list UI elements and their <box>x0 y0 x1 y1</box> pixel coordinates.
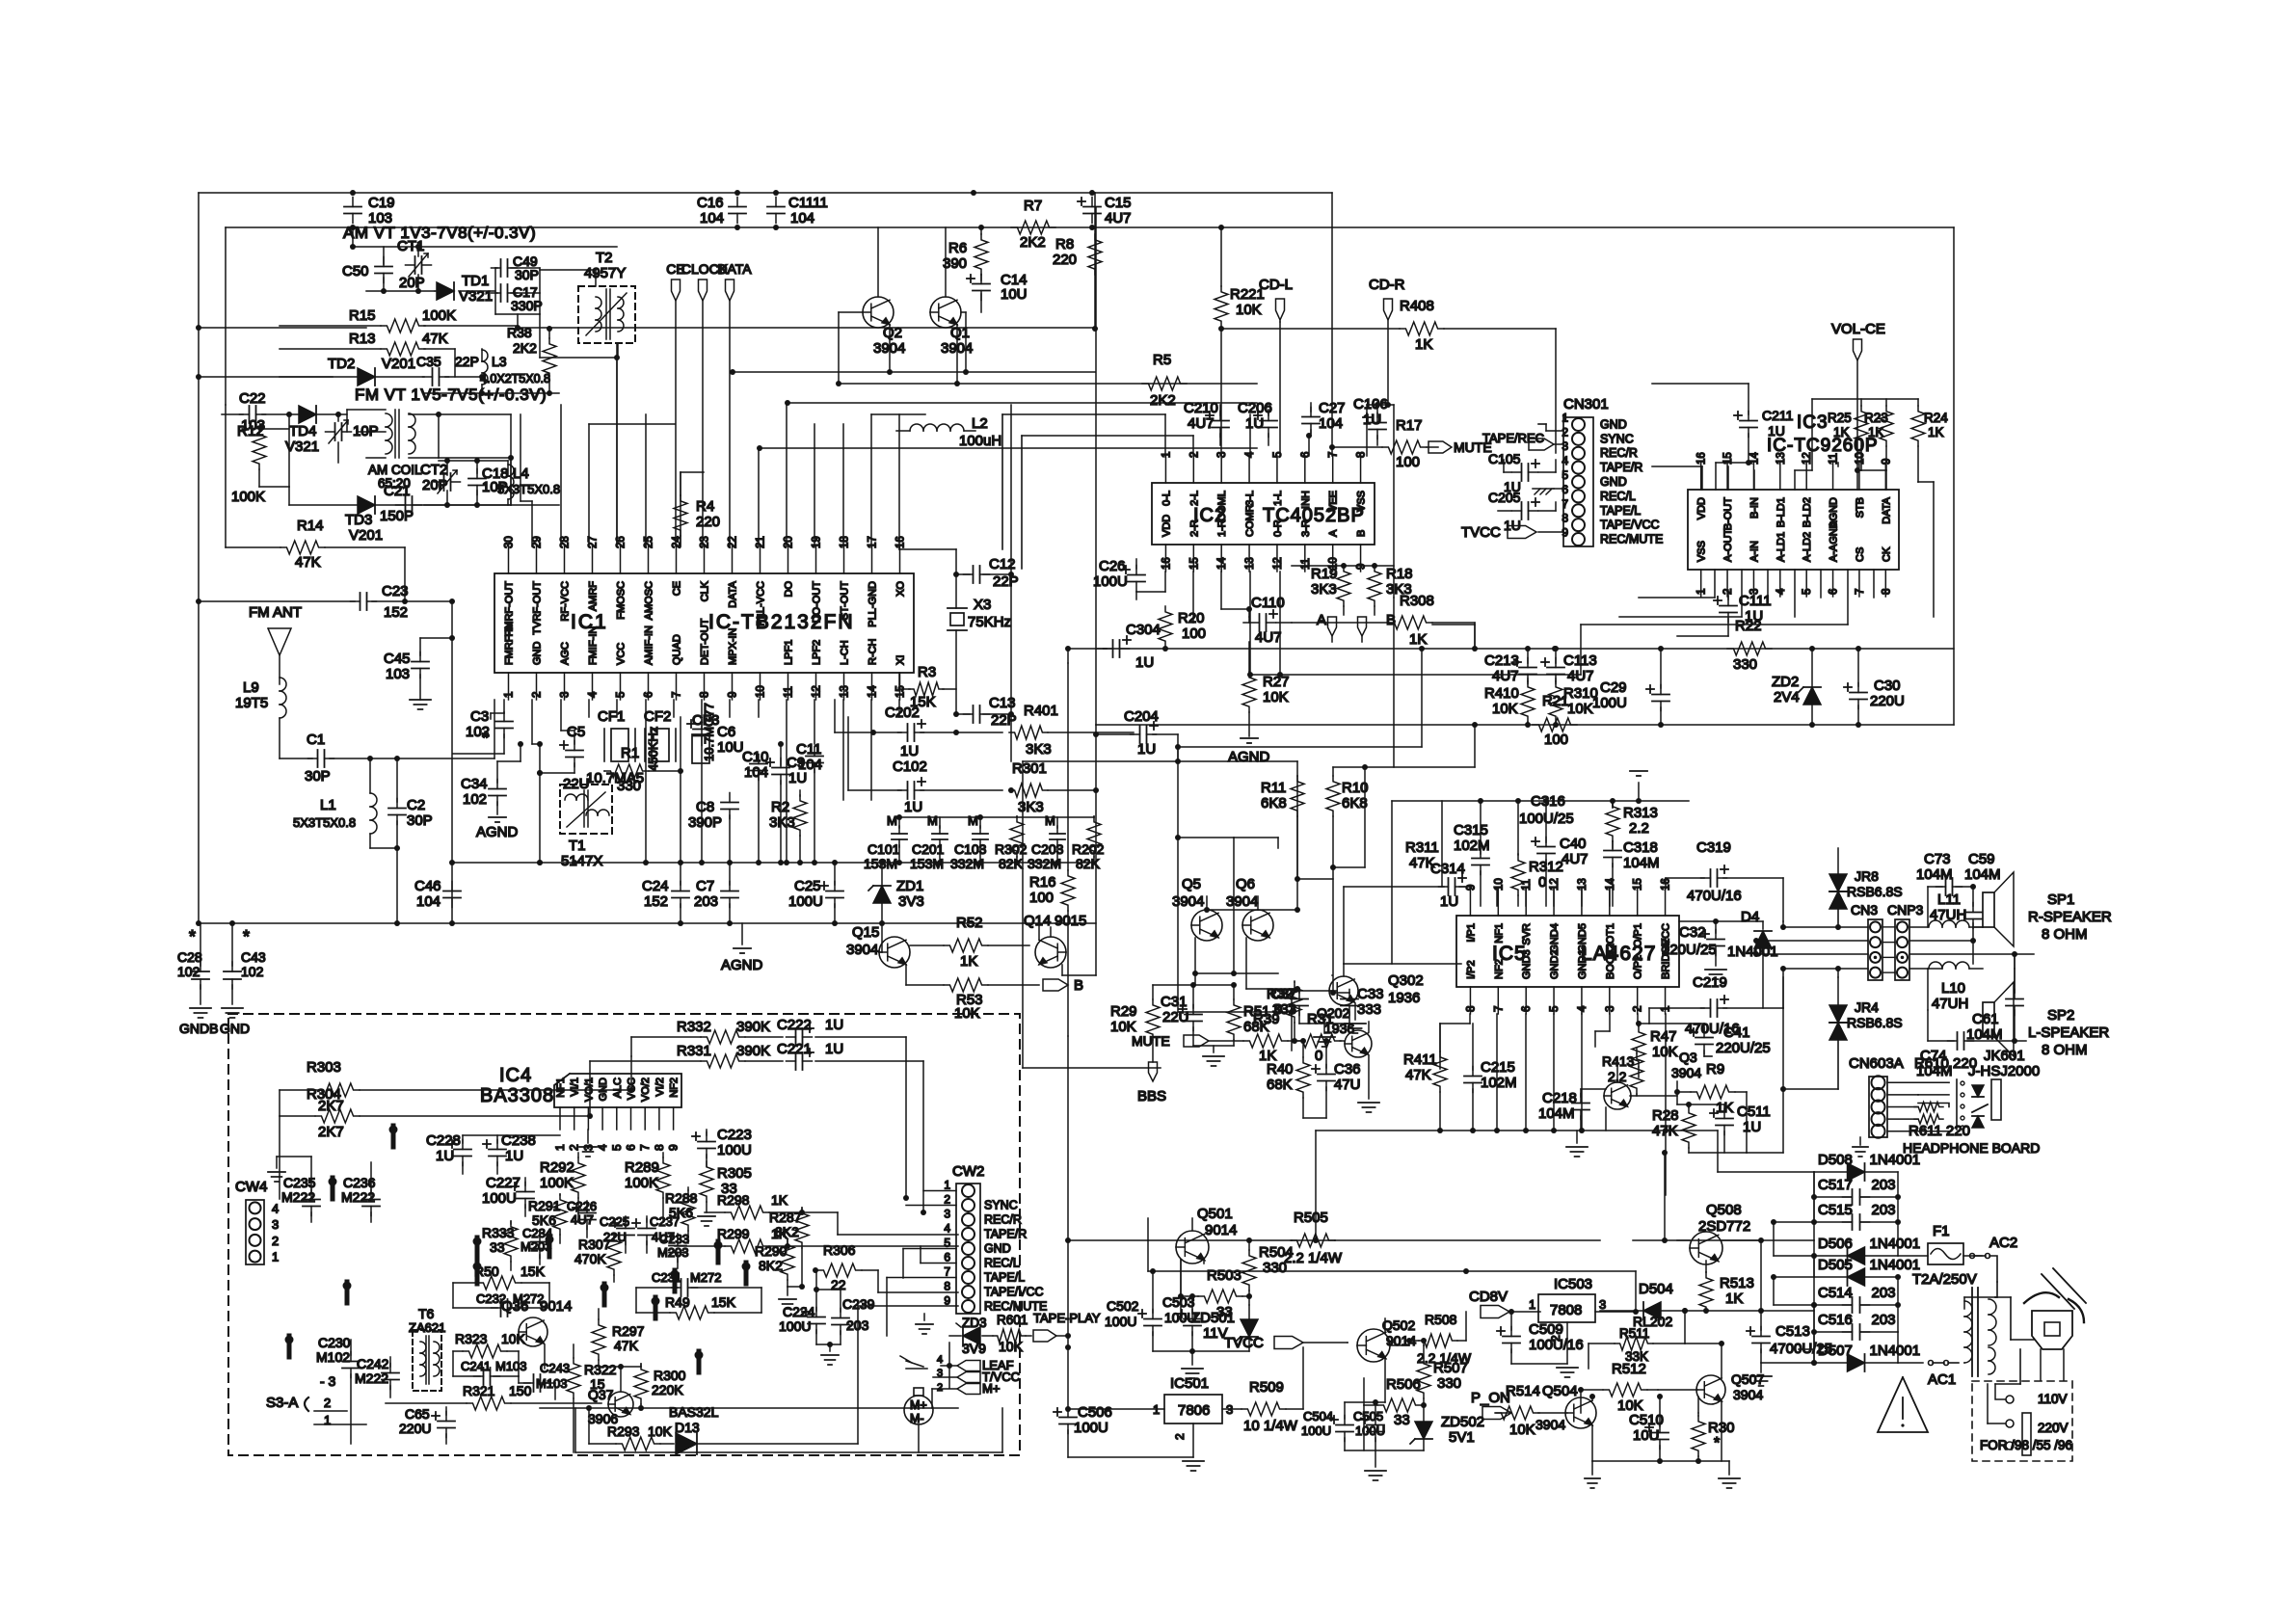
capacitor C6 <box>687 720 744 757</box>
svg-text:LPF1: LPF1 <box>784 640 795 665</box>
svg-text:5: 5 <box>616 692 627 698</box>
wire <box>452 814 1096 865</box>
svg-text:3904: 3904 <box>1733 1387 1763 1402</box>
svg-text:R6: R6 <box>948 240 967 256</box>
svg-text:- 3: - 3 <box>320 1373 336 1389</box>
node CN301 pin 6 REC/L <box>1562 483 1636 503</box>
switch contact <box>601 1284 609 1306</box>
svg-text:BAS32L: BAS32L <box>669 1404 719 1420</box>
node B <box>1358 612 1397 642</box>
svg-text:R29: R29 <box>1110 1003 1137 1020</box>
resistor R322 <box>567 1344 617 1452</box>
svg-text:C22: C22 <box>239 390 266 407</box>
svg-text:CW2: CW2 <box>952 1163 984 1180</box>
svg-text:1U: 1U <box>825 1041 843 1057</box>
svg-text:9: 9 <box>1356 564 1368 570</box>
svg-text:*: * <box>482 729 489 748</box>
svg-text:104: 104 <box>790 210 814 226</box>
op-amp U503 IC503 7808 <box>1511 1276 1639 1377</box>
svg-text:L9: L9 <box>243 679 259 696</box>
svg-text:5: 5 <box>1549 1006 1561 1012</box>
switch contact <box>652 1297 660 1319</box>
svg-text:7: 7 <box>944 1265 950 1279</box>
resistor R8 <box>1053 234 1102 275</box>
svg-text:B: B <box>1074 977 1083 994</box>
svg-text:R20: R20 <box>1178 610 1205 626</box>
ground <box>1299 1024 1349 1047</box>
svg-text:3K3: 3K3 <box>769 814 795 831</box>
svg-text:M: M <box>1045 813 1055 828</box>
svg-text:1N4001: 1N4001 <box>1727 944 1778 960</box>
node T/VCC <box>933 1354 1020 1394</box>
svg-text:Q5: Q5 <box>1182 876 1201 892</box>
svg-text:REC/R: REC/R <box>984 1213 1022 1227</box>
transistor Q5 <box>1172 876 1258 973</box>
svg-text:SP2: SP2 <box>2047 1007 2074 1024</box>
svg-text:1: 1 <box>1161 452 1172 458</box>
speaker SP1 <box>1973 872 2112 964</box>
svg-text:R9: R9 <box>1706 1061 1724 1078</box>
node CD-L <box>1259 277 1293 322</box>
capacitor C24 <box>642 863 689 926</box>
svg-text:1: 1 <box>1562 411 1568 424</box>
wire <box>359 412 514 505</box>
svg-text:14: 14 <box>1216 557 1228 570</box>
svg-text:10U: 10U <box>1633 1427 1660 1444</box>
resistor R27 <box>1242 642 1290 736</box>
svg-text:C515: C515 <box>1818 1202 1853 1218</box>
svg-text:21: 21 <box>756 536 767 548</box>
svg-text:NF1: NF1 <box>1493 923 1505 944</box>
resistor R408 <box>1221 298 1556 453</box>
connector CNP3 <box>1887 902 1924 980</box>
svg-text:3904: 3904 <box>846 942 878 958</box>
svg-text:C242: C242 <box>357 1356 389 1371</box>
svg-text:B: B <box>1356 530 1368 537</box>
svg-text:1U: 1U <box>1245 415 1264 432</box>
capacitor C211 <box>1652 384 1794 463</box>
resistor R503 <box>1178 1260 1252 1320</box>
label GND <box>220 1021 250 1036</box>
node TAPE/REC <box>1482 431 1554 450</box>
svg-text:11: 11 <box>1300 558 1312 570</box>
svg-text:R313: R313 <box>1623 805 1658 821</box>
chip cap C101 <box>864 813 907 871</box>
svg-text:Q6: Q6 <box>1236 876 1255 892</box>
wire <box>1538 424 1563 444</box>
svg-text:RF-VCC: RF-VCC <box>560 581 572 622</box>
resistor R13 <box>280 331 455 377</box>
svg-text:AC2: AC2 <box>1989 1235 2017 1251</box>
svg-text:R24: R24 <box>1924 411 1948 425</box>
capacitor C19 <box>344 195 395 226</box>
resistor R506 <box>1364 1376 1427 1450</box>
svg-text:1U: 1U <box>505 1148 523 1164</box>
svg-text:R509: R509 <box>1249 1379 1284 1396</box>
wire <box>1718 1131 1814 1172</box>
svg-text:150P: 150P <box>380 508 414 524</box>
svg-text:C202: C202 <box>885 705 920 721</box>
capacitor C515 <box>1814 1202 1898 1230</box>
svg-text:SP1: SP1 <box>2047 891 2074 908</box>
svg-text:5: 5 <box>1562 468 1568 482</box>
svg-text:F1: F1 <box>1933 1223 1950 1239</box>
svg-text:R401: R401 <box>1024 703 1058 719</box>
svg-text:CD8V: CD8V <box>1469 1289 1508 1305</box>
node CW2 pin 5 GND <box>944 1237 1010 1256</box>
svg-text:8: 8 <box>1881 589 1892 595</box>
svg-text:LA4627: LA4627 <box>1581 943 1656 965</box>
svg-text:330: 330 <box>617 778 641 794</box>
svg-text:330P: 330P <box>511 298 543 313</box>
resistor R53 <box>906 978 1039 1022</box>
capacitor C502 <box>1105 1268 1161 1351</box>
svg-text:C19: C19 <box>368 195 395 211</box>
svg-text:TAPE/L: TAPE/L <box>1600 504 1641 518</box>
transformer AM COIL <box>347 410 439 491</box>
capacitor C9 <box>766 741 807 865</box>
svg-text:R14: R14 <box>297 518 324 534</box>
svg-text:D506: D506 <box>1818 1236 1853 1252</box>
svg-text:CNP3: CNP3 <box>1887 902 1924 918</box>
selector FOR box <box>1972 1381 2072 1461</box>
svg-text:GND4: GND4 <box>1549 923 1561 953</box>
capacitor C222 <box>631 1017 909 1201</box>
node CW2 pin 9 REC/MUTE <box>944 1294 1047 1314</box>
svg-text:150: 150 <box>509 1383 532 1398</box>
capacitor C513 <box>1747 1311 1832 1366</box>
svg-text:C215: C215 <box>1481 1059 1515 1076</box>
svg-text:22P: 22P <box>993 573 1019 590</box>
svg-text:C29: C29 <box>1600 679 1627 696</box>
capacitor C23 <box>199 583 455 621</box>
svg-text:16: 16 <box>1661 878 1672 891</box>
svg-text:R1: R1 <box>621 745 639 761</box>
capacitor C33 <box>1330 867 1384 1024</box>
connector CW4 <box>235 1179 267 1264</box>
svg-text:C1: C1 <box>307 732 325 748</box>
capacitor C503 <box>1153 1293 1201 1354</box>
svg-text:1N4001: 1N4001 <box>1870 1343 1921 1359</box>
svg-text:2K2: 2K2 <box>1150 392 1176 409</box>
node AC1 <box>1928 1361 1959 1389</box>
svg-text:10K: 10K <box>648 1423 673 1439</box>
svg-text:220U: 220U <box>399 1421 431 1436</box>
svg-text:1K: 1K <box>771 1192 788 1208</box>
svg-text:2V4: 2V4 <box>1774 689 1800 705</box>
svg-text:TAPE/VCC: TAPE/VCC <box>984 1286 1044 1299</box>
ground near CN301 <box>1533 489 1563 494</box>
svg-text:33: 33 <box>1394 1412 1410 1428</box>
capacitor C239 <box>816 1290 875 1365</box>
svg-text:220: 220 <box>1053 252 1077 268</box>
capacitor C59 <box>1964 851 2001 941</box>
resistor R287 <box>769 1208 809 1290</box>
transformer T1 <box>560 785 612 869</box>
transistor Q37 <box>540 1367 958 1444</box>
svg-text:3904: 3904 <box>1172 893 1204 910</box>
svg-text:*: * <box>189 927 196 946</box>
svg-text:12: 12 <box>1272 557 1284 570</box>
svg-text:GND: GND <box>532 642 544 666</box>
resistor R32 <box>1267 981 1301 1044</box>
svg-text:V321: V321 <box>459 288 493 305</box>
transformer T mains <box>1964 1282 2034 1384</box>
svg-text:C514: C514 <box>1818 1285 1853 1301</box>
fuse F1 <box>1898 1223 1977 1288</box>
svg-text:REC/MUTE: REC/MUTE <box>984 1300 1047 1314</box>
svg-text:6: 6 <box>1521 1006 1533 1012</box>
svg-text:R312: R312 <box>1529 859 1563 875</box>
svg-text:R289: R289 <box>625 1159 659 1176</box>
svg-text:C46: C46 <box>414 878 441 894</box>
connector CN301 <box>1563 396 1609 546</box>
svg-text:R299: R299 <box>717 1226 750 1241</box>
svg-text:4: 4 <box>588 691 600 698</box>
svg-text:82K: 82K <box>999 856 1024 871</box>
resistor R29 <box>1110 985 1160 1062</box>
svg-text:6: 6 <box>944 1251 950 1264</box>
svg-text:Q508: Q508 <box>1706 1202 1742 1218</box>
svg-text:R17: R17 <box>1396 417 1423 434</box>
svg-text:RSB6.8S: RSB6.8S <box>1847 884 1903 899</box>
svg-text:R22: R22 <box>1735 618 1762 634</box>
transistor Q36 <box>501 1298 572 1369</box>
svg-text:C1111: C1111 <box>788 195 828 211</box>
svg-text:I/P2: I/P2 <box>1465 960 1477 979</box>
capacitor C7 <box>694 863 738 926</box>
svg-text:M102: M102 <box>316 1349 350 1365</box>
svg-text:104M: 104M <box>1964 866 2001 883</box>
svg-text:C33: C33 <box>1357 986 1384 1002</box>
capacitor C8 <box>688 793 738 866</box>
svg-text:AMOSC: AMOSC <box>644 581 655 620</box>
node IC4 pin 8 VI/2 <box>653 1078 666 1151</box>
svg-text:REC/R: REC/R <box>1600 446 1638 460</box>
svg-text:10K: 10K <box>501 1331 526 1346</box>
svg-text:203: 203 <box>1872 1285 1896 1301</box>
resistor R312 <box>1511 854 1563 906</box>
wire <box>1192 971 1278 985</box>
resistor R300 <box>634 1364 686 1411</box>
svg-text:16: 16 <box>895 536 907 548</box>
svg-text:1K: 1K <box>1725 1290 1743 1307</box>
svg-text:A-LD1: A-LD1 <box>1775 532 1787 562</box>
capacitor C511 <box>1674 1089 1771 1153</box>
svg-text:332M: 332M <box>950 856 984 871</box>
svg-text:1U: 1U <box>436 1148 454 1164</box>
wire <box>1148 1150 1814 1363</box>
svg-text:3904: 3904 <box>1671 1065 1701 1080</box>
svg-text:1U: 1U <box>904 799 922 815</box>
svg-text:VI/2: VI/2 <box>654 1078 666 1097</box>
svg-text:2K7: 2K7 <box>318 1124 344 1140</box>
resistor R313 <box>1606 801 1658 841</box>
label FM VT <box>355 386 547 404</box>
capacitor C102 <box>848 717 1014 815</box>
svg-text:Q504: Q504 <box>1542 1383 1578 1399</box>
svg-text:T2A/250V: T2A/250V <box>1912 1271 1977 1288</box>
svg-text:TC4052BP: TC4052BP <box>1263 505 1365 526</box>
svg-text:C111: C111 <box>1739 593 1772 609</box>
svg-text:1: 1 <box>1661 1006 1672 1012</box>
svg-text:8K2: 8K2 <box>775 1224 799 1239</box>
svg-text:TVRF-OUT: TVRF-OUT <box>532 581 544 635</box>
svg-text:C13: C13 <box>989 695 1016 711</box>
svg-text:R30: R30 <box>1708 1420 1735 1436</box>
svg-text:390K: 390K <box>736 1019 770 1035</box>
resistor R7 <box>1011 198 1055 251</box>
svg-text:104: 104 <box>416 893 441 910</box>
connector JK601 J-HSJ2000 <box>1853 1048 2040 1157</box>
svg-text:ZA621: ZA621 <box>409 1320 445 1335</box>
svg-text:4: 4 <box>272 1201 279 1215</box>
svg-text:V201: V201 <box>382 356 415 372</box>
svg-text:TD3: TD3 <box>345 512 372 528</box>
capacitor C224 <box>779 1270 841 1344</box>
svg-text:7806: 7806 <box>1178 1402 1210 1419</box>
svg-text:20P: 20P <box>422 477 448 493</box>
node CW2 pin 1 <box>944 1179 950 1192</box>
svg-text:R3: R3 <box>918 664 936 680</box>
svg-text:R292: R292 <box>540 1159 574 1176</box>
capacitor C73 <box>1916 851 1973 927</box>
svg-text:100: 100 <box>1029 890 1054 906</box>
svg-text:3: 3 <box>944 1208 950 1221</box>
node IC4 pin 5 ALC <box>610 1078 624 1151</box>
svg-text:C304: C304 <box>1126 622 1161 638</box>
svg-text:1: 1 <box>1529 1297 1535 1312</box>
resistor R305 <box>698 1161 752 1226</box>
svg-text:DATA: DATA <box>1881 496 1892 523</box>
svg-text:C16: C16 <box>697 195 724 211</box>
svg-text:C241: C241 <box>461 1359 491 1373</box>
resistor R298 <box>705 1192 958 1235</box>
diode D4 <box>1716 909 1778 1008</box>
resistor R2 <box>769 790 807 865</box>
resistor R511 <box>1589 1308 1688 1369</box>
svg-text:DO: DO <box>784 581 795 598</box>
svg-text:100uH: 100uH <box>959 433 1001 449</box>
svg-text:C218: C218 <box>1542 1090 1577 1106</box>
node CD-R <box>1369 277 1405 408</box>
svg-text:B-OUT: B-OUT <box>1722 497 1734 531</box>
svg-text:2: 2 <box>1173 1433 1187 1440</box>
svg-text:R288: R288 <box>665 1190 698 1206</box>
resistor R31 <box>1296 1011 1344 1064</box>
op-amp U2 IC2 TC4052BP <box>1152 451 1375 572</box>
svg-text:SYNC: SYNC <box>1600 432 1634 445</box>
label GNDB <box>179 1021 218 1036</box>
label AGND bottom <box>721 923 763 973</box>
node CW4 pin 3 <box>272 1217 279 1232</box>
svg-text:CF1: CF1 <box>598 708 625 725</box>
ground <box>579 1130 597 1157</box>
svg-text:R408: R408 <box>1400 298 1434 314</box>
chip cap C203 <box>1028 813 1065 871</box>
svg-text:19: 19 <box>812 536 823 548</box>
svg-text:R505: R505 <box>1294 1210 1328 1226</box>
svg-text:5: 5 <box>944 1237 950 1250</box>
svg-text:100: 100 <box>1182 625 1206 642</box>
svg-text:C225: C225 <box>600 1214 629 1229</box>
svg-text:0: 0 <box>1538 874 1546 891</box>
svg-text:FOR /98 /55 /96: FOR /98 /55 /96 <box>1980 1438 2072 1452</box>
svg-text:C516: C516 <box>1818 1312 1853 1328</box>
svg-text:A-AGND: A-AGND <box>1829 520 1840 562</box>
svg-text:220V: 220V <box>2038 1421 2069 1435</box>
svg-text:AM VT 1V3-7V8(+/-0.3V): AM VT 1V3-7V8(+/-0.3V) <box>343 224 536 242</box>
resistor R513 <box>1699 1272 1754 1314</box>
resistor R303 <box>280 1056 634 1116</box>
svg-text:203: 203 <box>1872 1202 1896 1218</box>
node CN301 pin 4 TAPE/R <box>1562 454 1642 474</box>
svg-text:R-CH: R-CH <box>868 638 879 665</box>
svg-text:10U: 10U <box>1001 286 1028 303</box>
diode TD4 <box>285 406 347 455</box>
capacitor C43 <box>222 920 266 1018</box>
svg-text:6: 6 <box>1300 452 1312 458</box>
svg-text:C21: C21 <box>384 483 411 499</box>
svg-text:2: 2 <box>1562 425 1568 439</box>
svg-text:AM COIL: AM COIL <box>368 463 422 477</box>
capacitor C213 <box>1484 652 1536 684</box>
resistor R16 <box>1029 663 1075 1036</box>
svg-text:R331: R331 <box>677 1043 711 1059</box>
svg-text:C40: C40 <box>1560 836 1587 852</box>
wire <box>1882 927 2034 972</box>
svg-text:3904: 3904 <box>1226 893 1258 910</box>
svg-text:152: 152 <box>384 604 408 621</box>
svg-text:18: 18 <box>840 536 851 548</box>
switch contact <box>695 1351 704 1373</box>
svg-text:C103: C103 <box>954 841 987 857</box>
svg-text:FMOSC: FMOSC <box>616 581 627 620</box>
resistor R509 <box>1241 1347 1303 1434</box>
svg-text:3K3: 3K3 <box>1026 741 1052 758</box>
relay RL202 <box>1633 1314 1672 1329</box>
capacitor C14 <box>967 272 1028 312</box>
svg-text:203: 203 <box>694 893 718 910</box>
svg-text:R47: R47 <box>1650 1028 1677 1045</box>
svg-text:LPF2: LPF2 <box>812 640 823 665</box>
resistor R297 <box>592 1309 645 1370</box>
svg-text:R38: R38 <box>507 325 532 340</box>
resistor R507 <box>1417 1338 1468 1407</box>
svg-text:C502: C502 <box>1107 1298 1139 1314</box>
resistor R504 <box>1242 1237 1294 1305</box>
svg-text:R512: R512 <box>1612 1361 1646 1377</box>
svg-text:C8: C8 <box>696 799 714 815</box>
trimmer 10P <box>326 412 379 463</box>
svg-text:100U: 100U <box>717 1142 752 1158</box>
diode TD3 <box>289 487 383 544</box>
svg-text:C318: C318 <box>1623 839 1658 856</box>
capacitor C204 <box>1093 708 1178 758</box>
svg-text:10.7MG77: 10.7MG77 <box>702 703 716 761</box>
capacitor C32 <box>1662 918 1726 979</box>
diode D13 <box>575 1306 1002 1454</box>
svg-text:VOL-CE: VOL-CE <box>1831 321 1885 337</box>
svg-text:P_ON: P_ON <box>1471 1390 1510 1406</box>
svg-text:10: 10 <box>756 685 767 698</box>
svg-text:4: 4 <box>1562 454 1568 467</box>
node M+ <box>932 1381 1000 1396</box>
resistor R22 <box>1727 618 1772 673</box>
svg-text:CW4: CW4 <box>235 1179 267 1195</box>
capacitor C304 <box>1065 622 1161 671</box>
svg-text:R305: R305 <box>717 1165 752 1182</box>
